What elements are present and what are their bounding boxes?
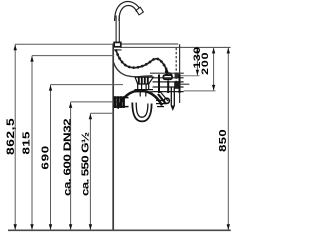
trap outlet pipe bbox=[114, 98, 129, 107]
dimension line 862,5 bbox=[15, 44, 113, 230]
outlet flange ticks bbox=[115, 96, 124, 108]
svg-text:815: 815 bbox=[20, 131, 32, 154]
bracket bolts bbox=[159, 75, 180, 94]
bolt bbox=[164, 98, 169, 103]
wall stub bbox=[174, 81, 179, 89]
trap right fittings bbox=[156, 100, 165, 106]
trap dome bbox=[118, 90, 163, 108]
bowl back corner line bbox=[113, 49, 121, 51]
trap union collar bbox=[135, 89, 154, 91]
dimension line 850 bbox=[227, 48, 229, 230]
dimension line 815 bbox=[32, 56, 114, 230]
overflow coupling bbox=[163, 75, 172, 79]
faucet base bbox=[114, 42, 121, 46]
vertical waste pipe bbox=[171, 87, 174, 106]
wall bbox=[112, 43, 114, 229]
chain knob bbox=[165, 70, 168, 73]
bracket lines bbox=[153, 78, 184, 92]
overflow circle bbox=[166, 73, 171, 78]
extension line 130 level bbox=[180, 75, 200, 77]
overflow wall block bbox=[175, 73, 180, 79]
extension line 200 level bbox=[184, 90, 216, 92]
trap U loop inner bbox=[136, 103, 148, 118]
sink bowl outer bottom bbox=[114, 63, 153, 77]
sink bowl inner curve bbox=[116, 50, 167, 71]
svg-text:200: 200 bbox=[200, 52, 210, 75]
svg-text:690: 690 bbox=[39, 145, 51, 170]
faucet riser pipe bbox=[116, 16, 119, 43]
rim extension line bbox=[120, 46, 230, 48]
sink right edge bbox=[175, 48, 177, 87]
dimension line ca.600 DN32 bbox=[71, 102, 117, 230]
arrowheads top bbox=[14, 45, 231, 120]
faucet swan neck bbox=[115, 2, 141, 21]
arrowheads bottom bbox=[14, 70, 231, 230]
svg-text:862,5: 862,5 bbox=[4, 118, 16, 155]
sink ledge line bbox=[121, 43, 178, 45]
trap right diagonal nut bbox=[158, 94, 166, 104]
svg-text:ca. 550 G½: ca. 550 G½ bbox=[79, 132, 91, 196]
dimension line 130 bbox=[196, 48, 198, 76]
svg-text:ca. 600 DN32: ca. 600 DN32 bbox=[61, 118, 73, 196]
dimension line ca.550 G1/2 bbox=[90, 113, 113, 230]
dimension line 690 bbox=[51, 85, 124, 230]
faucet spout tip bbox=[136, 7, 143, 15]
floor line bbox=[8, 229, 231, 231]
drain funnel crown bbox=[135, 77, 153, 84]
dimension line 200 bbox=[213, 48, 215, 91]
drain tailpipe bbox=[138, 84, 149, 97]
trap U loop outer bbox=[132, 103, 151, 122]
svg-text:850: 850 bbox=[218, 129, 228, 152]
overflow pipe line bbox=[150, 72, 184, 74]
